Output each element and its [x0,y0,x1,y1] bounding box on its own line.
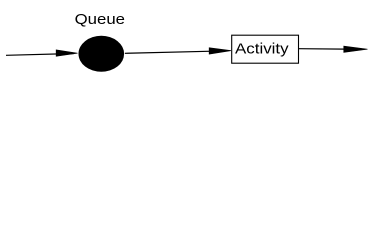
wire queue to activity [125,51,228,54]
wire into queue [6,54,74,56]
svg-text:Activity: Activity [235,41,289,58]
svg-text:Queue: Queue [75,11,125,28]
arrowhead into queue [56,50,77,56]
wire out of activity [299,48,345,50]
arrowhead out [344,46,368,52]
queue ellipse [79,36,125,72]
activity box [232,35,299,63]
arrowhead into activity [209,48,231,54]
